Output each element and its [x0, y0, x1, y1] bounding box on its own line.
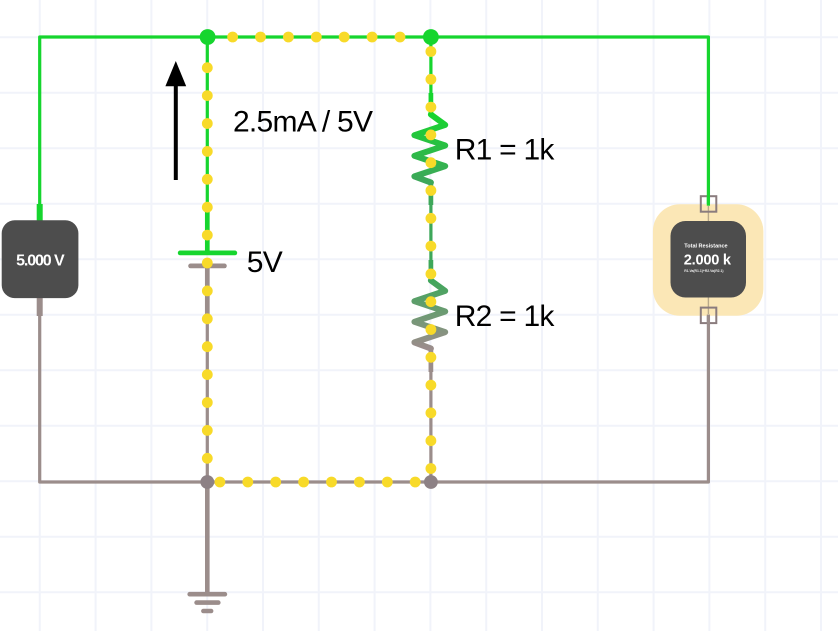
svg-text:Total Resistance: Total Resistance	[684, 244, 727, 250]
svg-text:2.000 k: 2.000 k	[684, 253, 732, 269]
svg-text:R1.Va(R1.1)+R2.Va(R2.1): R1.Va(R1.1)+R2.Va(R2.1)	[684, 269, 723, 273]
svg-text:5V: 5V	[247, 246, 283, 279]
svg-text:R1 = 1k: R1 = 1k	[455, 133, 556, 166]
svg-text:R2 = 1k: R2 = 1k	[455, 300, 556, 333]
svg-text:5.000 V: 5.000 V	[16, 253, 65, 270]
svg-text:2.5mA / 5V: 2.5mA / 5V	[233, 106, 373, 139]
